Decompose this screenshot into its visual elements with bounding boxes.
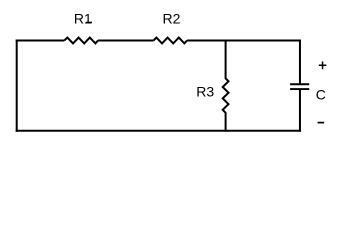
svg-text:R1: R1: [74, 10, 92, 26]
label R1: [74, 10, 92, 26]
wire: top rail middle segment: [98, 40, 154, 42]
capacitor C: [290, 40, 309, 132]
wire: top rail right segment: [187, 40, 301, 42]
svg-text:R3: R3: [196, 84, 214, 100]
plus polarity mark: [319, 62, 327, 70]
svg-text:R2: R2: [163, 10, 181, 26]
wire: left side: [16, 40, 18, 132]
resistor R2: [154, 38, 188, 44]
wire: bottom rail: [16, 130, 301, 132]
svg-text:C: C: [316, 86, 326, 102]
resistor R3: [223, 40, 229, 132]
minus polarity mark: [318, 122, 325, 124]
resistor R1: [64, 38, 98, 44]
wire: top rail left segment: [16, 40, 65, 42]
